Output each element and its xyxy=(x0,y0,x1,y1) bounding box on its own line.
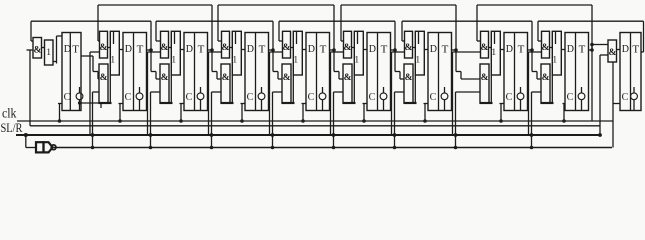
svg-text:&: & xyxy=(542,73,550,83)
junction clk at FF3 xyxy=(179,119,183,123)
wire Q-bar stem of FF3 xyxy=(200,100,202,111)
svg-text:clk: clk xyxy=(2,106,17,121)
junction clk at FF9 xyxy=(562,119,566,123)
wire clock riser to FF8 C input xyxy=(500,104,502,122)
junction clk at FF5 xyxy=(301,119,305,123)
wire output stem above bubble of FF10 xyxy=(633,87,635,93)
wire clock riser to FF1 C input xyxy=(59,104,61,122)
or gate V5 internal divider xyxy=(296,31,298,44)
junction Q9 node xyxy=(590,48,594,52)
svg-text:1: 1 xyxy=(171,56,176,66)
wire V7 out to FF7 D input xyxy=(424,49,428,51)
and gate U6B lower box bottom bar xyxy=(343,102,356,104)
and gate U4A upper (&) xyxy=(222,31,230,58)
svg-text:&: & xyxy=(541,43,549,53)
wire output stem above bubble of FF7 xyxy=(444,87,446,93)
junction bottom rail at cell 5 riser xyxy=(271,146,275,150)
wire inverted SL/R riser to U5B pin xyxy=(272,92,274,148)
junction bottom rail at cell 9 riser xyxy=(530,146,534,150)
or gate V5 (1) xyxy=(293,31,302,75)
svg-text:D: D xyxy=(369,44,376,55)
wire Q feedback into U5A pin xyxy=(279,40,282,42)
or gate V7 lower extension xyxy=(414,75,416,103)
wire output stem above bubble of FF8 xyxy=(520,87,522,93)
junction bottom rail at cell 7 riser xyxy=(393,146,397,150)
flip-flop FF9 divider xyxy=(575,33,577,111)
wire SL/R riser to U9A pin xyxy=(528,52,530,135)
junction Q6 node xyxy=(393,48,397,52)
wire feedback Q5 to cell 4 top span xyxy=(218,4,334,6)
wire SL/R feed to gate U1 input xyxy=(27,49,34,51)
svg-text:1: 1 xyxy=(232,56,237,66)
wire Q-bar stem of FF1 xyxy=(79,100,81,111)
svg-text:T: T xyxy=(381,44,388,56)
svg-text:SL/R: SL/R xyxy=(1,121,24,135)
wire SL/R upper distribution rail xyxy=(30,125,600,127)
wire clock riser to FF6 C input xyxy=(363,104,365,122)
wire riser to gate U3A input xyxy=(155,21,157,41)
wire Q feedback into U9A pin xyxy=(538,40,541,42)
svg-text:1: 1 xyxy=(110,56,115,66)
junction clk at FF2 xyxy=(118,119,122,123)
and gate U3A upper (&) xyxy=(161,31,169,58)
svg-text:&: & xyxy=(33,46,41,56)
flip-flop FF4 divider xyxy=(255,33,257,111)
junction SL/R at U10 riser xyxy=(598,133,602,137)
or gate V9 (1) xyxy=(552,31,561,75)
or gate V9 internal divider xyxy=(555,31,557,44)
or gate V7 (1) xyxy=(415,31,424,75)
junction bottom rail at cell 8 riser xyxy=(454,146,458,150)
and gate U5B lower (&) xyxy=(282,64,291,103)
wire Q2 feedback into U1 pin xyxy=(31,40,33,42)
and gate U9B lower box bottom bar xyxy=(541,102,554,104)
wire Q-bar stem of FF10 xyxy=(633,100,635,111)
junction Q9 node xyxy=(590,43,594,47)
wire SL/R riser to U2A pin xyxy=(89,52,91,135)
wire U1 out to V1 xyxy=(42,47,45,49)
wire clock riser to FF7 C input xyxy=(424,104,426,122)
wire feedback Q8 to cell 7 top span xyxy=(402,20,532,22)
wire Q9 output stub xyxy=(589,49,593,51)
svg-text:T: T xyxy=(259,44,266,56)
svg-text:1: 1 xyxy=(46,48,51,58)
flip-flop FF6 body xyxy=(367,33,391,111)
svg-text:T: T xyxy=(579,44,586,56)
junction Q2 node xyxy=(149,48,153,52)
wire Q6 output stub xyxy=(391,49,396,51)
svg-text:&: & xyxy=(222,73,230,83)
wire clock riser to FF3 C input xyxy=(180,104,182,122)
svg-text:&: & xyxy=(608,48,616,58)
svg-text:C: C xyxy=(186,92,193,103)
svg-text:C: C xyxy=(506,92,513,103)
wire Q10 riser to feedback span xyxy=(643,21,645,52)
wire Q-bar stem of FF2 xyxy=(139,100,141,111)
wire output stem above bubble of FF2 xyxy=(139,87,141,93)
or gate V2 (1) xyxy=(110,31,119,75)
wire V1 out to FF1 D input xyxy=(53,61,57,63)
wire U3A out to V3 xyxy=(169,47,172,49)
wire inverted SL/R riser to U9B pin xyxy=(531,92,533,148)
wire inverted SL/R bottom rail xyxy=(54,147,613,149)
wire V8 out to FF8 D input xyxy=(500,49,504,51)
wire output stem above bubble of FF1 xyxy=(79,87,81,93)
wire riser to gate U1A input xyxy=(30,21,32,41)
wire Q6 staircase to U7B pin xyxy=(395,71,400,73)
and gate U1 (&) xyxy=(33,38,42,59)
and gate U10 (&) xyxy=(608,40,617,62)
and gate U3B lower box bottom bar xyxy=(160,102,173,104)
and gate U7B lower box bottom bar xyxy=(404,102,417,104)
wire U2A out to V2 xyxy=(108,47,111,49)
wire SL/R rail xyxy=(16,134,600,136)
svg-text:D: D xyxy=(247,44,254,55)
svg-text:C: C xyxy=(430,92,437,103)
svg-text:&: & xyxy=(343,43,351,53)
wire inverted SL/R riser to U3B pin xyxy=(150,92,152,148)
junction SL/R rail at cell 2 riser xyxy=(91,133,95,137)
and gate U7B lower (&) xyxy=(404,64,413,103)
svg-text:&: & xyxy=(161,73,169,83)
junction Q5 node xyxy=(332,48,336,52)
flip-flop FF1 divider xyxy=(69,33,71,111)
inverter G1 body xyxy=(44,142,53,152)
or gate V9 lower extension xyxy=(551,75,553,103)
svg-text:1: 1 xyxy=(293,56,298,66)
wire V9 out to FF9 D input xyxy=(561,49,565,51)
inverted output bubble of FF8 xyxy=(517,93,524,100)
wire Q2 staircase to U3B pin xyxy=(151,71,156,73)
or gate V3 lower extension xyxy=(170,75,172,103)
wire inverted SL/R riser to U6B pin xyxy=(333,92,335,148)
and gate U8B lower box bottom bar xyxy=(480,102,493,104)
wire Q-bar FF1 output xyxy=(80,102,102,104)
and gate U2B lower box bottom bar xyxy=(99,102,112,104)
or gate V1 (1) xyxy=(45,40,54,65)
junction Q-bar node of FF1 xyxy=(78,101,81,104)
junction SL/R rail at cell 7 riser xyxy=(393,133,397,137)
wire V4 out to FF4 D input xyxy=(241,49,245,51)
junction clk at FF8 xyxy=(499,119,503,123)
svg-text:D: D xyxy=(64,44,71,55)
wire feedback Q3 to cell 2 top span xyxy=(98,4,212,6)
junction SL/R rail at cell 5 riser xyxy=(271,133,275,137)
wire Q feedback into U2A pin xyxy=(98,40,99,42)
wire Q-bar stem of FF7 xyxy=(444,100,446,111)
svg-text:&: & xyxy=(283,73,291,83)
wire SL/R riser to distribution rail xyxy=(29,50,31,126)
or gate V6 (1) xyxy=(354,31,363,75)
wire Q-bar stem of FF6 xyxy=(383,100,385,111)
junction bottom rail at cell 2 riser xyxy=(91,146,95,150)
wire U4A out to V4 xyxy=(230,47,233,49)
wire feedback Q4 to cell 3 top span xyxy=(156,20,273,22)
or gate V8 internal divider xyxy=(494,31,496,44)
wire Q4 staircase to U5B pin xyxy=(273,71,278,73)
junction clk at FF7 xyxy=(423,119,427,123)
inverted output bubble of FF9 xyxy=(578,93,585,100)
and gate U4B lower box bottom bar xyxy=(221,102,234,104)
svg-text:D: D xyxy=(430,44,437,55)
wire clock riser to FF2 C input xyxy=(119,104,121,122)
svg-text:D: D xyxy=(567,44,574,55)
wire Q6 riser xyxy=(394,21,396,71)
wire riser to gate U4A input xyxy=(217,5,219,41)
wire SL/R riser to U3A pin xyxy=(147,52,149,135)
inverted output bubble of FF6 xyxy=(380,93,387,100)
wire Q10 output stub xyxy=(641,51,644,53)
wire inverted SL/R riser to U7B pin xyxy=(394,92,396,148)
inverted output bubble of FF1 xyxy=(76,93,83,100)
flip-flop FF5 body xyxy=(306,33,330,111)
or gate V8 (1) xyxy=(491,31,500,75)
svg-text:D: D xyxy=(186,44,193,55)
wire Q2 riser xyxy=(150,21,152,71)
flip-flop FF2 body xyxy=(123,33,147,111)
wire Q feedback into U7A pin xyxy=(402,40,404,42)
junction Q3 node xyxy=(210,48,214,52)
junction SL/R rail at cell 4 riser xyxy=(210,133,214,137)
flip-flop FF2 divider xyxy=(133,33,135,111)
or gate V5 lower extension xyxy=(292,75,294,103)
junction Q8 node xyxy=(530,48,534,52)
wire Q3 riser xyxy=(211,5,213,72)
wire Q feedback into U4A pin xyxy=(218,40,221,42)
wire output stem above bubble of FF6 xyxy=(383,87,385,93)
svg-text:D: D xyxy=(622,44,629,55)
svg-text:T: T xyxy=(72,44,79,56)
wire Q4 riser xyxy=(272,21,274,71)
svg-text:D: D xyxy=(308,44,315,55)
or gate V3 (1) xyxy=(171,31,180,75)
svg-text:D: D xyxy=(125,44,132,55)
wire Q4 output stub xyxy=(269,49,274,51)
svg-text:T: T xyxy=(518,44,525,56)
wire riser to gate U9A input xyxy=(537,21,539,41)
wire inverted SL/R riser to U4B pin xyxy=(211,92,213,148)
flip-flop FF9 body xyxy=(565,33,589,111)
wire inverted SL/R riser to U2B pin xyxy=(92,92,94,148)
junction bottom rail at cell 6 riser xyxy=(332,146,336,150)
inverted output bubble of FF5 xyxy=(319,93,326,100)
wire U5A out to V5 xyxy=(291,47,294,49)
svg-text:&: & xyxy=(160,43,168,53)
or gate V6 lower extension xyxy=(353,75,355,103)
junction SL/R rail at cell 9 riser xyxy=(530,133,534,137)
inverter G1 bubble xyxy=(51,145,56,150)
and gate U8A upper (&) xyxy=(481,31,489,58)
svg-text:&: & xyxy=(404,43,412,53)
svg-text:D: D xyxy=(506,44,513,55)
wire U10 out to FF10 D input xyxy=(617,49,621,51)
flip-flop FF4 body xyxy=(245,33,269,111)
wire feedback Q2 to cell 1 top span xyxy=(31,20,151,22)
svg-text:C: C xyxy=(247,92,254,103)
wire riser to gate U5A input xyxy=(278,21,280,41)
svg-text:&: & xyxy=(100,73,108,83)
svg-text:&: & xyxy=(221,43,229,53)
inverter G1 input box xyxy=(36,142,44,152)
and gate U2B lower (&) xyxy=(99,64,108,103)
junction clk at FF4 xyxy=(240,119,244,123)
wire Q9 to U10 pin xyxy=(592,44,608,46)
svg-text:1: 1 xyxy=(415,56,420,66)
flip-flop FF7 body xyxy=(428,33,452,111)
wire riser bottom rail to gate U10 and FF10 C input xyxy=(612,62,614,148)
inverted output bubble of FF2 xyxy=(136,93,143,100)
wire Q8 staircase to U9B pin xyxy=(532,71,537,73)
wire output stem above bubble of FF3 xyxy=(200,87,202,93)
or gate V4 lower extension xyxy=(231,75,233,103)
wire FF10 C input stub xyxy=(613,103,620,105)
or gate V8 lower extension xyxy=(490,75,492,103)
wire Q feedback into U3A pin xyxy=(156,40,160,42)
wire U8A out to V8 xyxy=(489,47,492,49)
svg-text:C: C xyxy=(369,92,376,103)
junction bottom rail at cell 3 riser xyxy=(149,146,153,150)
wire Q-bar stem of FF9 xyxy=(581,100,583,111)
wire SL/R riser to U8A pin xyxy=(452,52,454,135)
svg-text:&: & xyxy=(480,43,488,53)
junction bottom rail at cell 4 riser xyxy=(210,146,214,150)
svg-text:1: 1 xyxy=(354,56,359,66)
junction SL/R tap xyxy=(24,133,28,137)
junction SL/R rail at cell 3 riser xyxy=(149,133,153,137)
wire Q8 output stub xyxy=(528,49,533,51)
svg-text:T: T xyxy=(632,44,639,56)
wire feedback Q6 to cell 5 top span xyxy=(279,20,395,22)
or gate V2 internal divider xyxy=(113,31,115,44)
wire Q-bar stem of FF8 xyxy=(520,100,522,111)
wire Q5 staircase to U6B pin xyxy=(334,71,339,73)
flip-flop FF6 divider xyxy=(377,33,379,111)
wire clock riser to FF9 C input xyxy=(563,104,565,122)
junction Q4 node xyxy=(271,48,275,52)
wire Q5 riser xyxy=(333,5,335,72)
wire SL/R riser to U7A pin xyxy=(391,52,393,135)
junction clk at FF6 xyxy=(362,119,366,123)
wire feedback Q9 to cell 8 top span xyxy=(477,4,592,6)
wire SL/R riser to U5A pin xyxy=(269,52,271,135)
wire Q9 riser xyxy=(591,5,593,50)
or gate V3 internal divider xyxy=(174,31,176,44)
inverted output bubble of FF3 xyxy=(197,93,204,100)
wire U6A out to V6 xyxy=(352,47,355,49)
or gate V7 internal divider xyxy=(418,31,420,44)
and gate U8B lower (&) xyxy=(480,64,489,103)
wire V3 out to FF3 D input xyxy=(180,49,184,51)
and gate U9A upper (&) xyxy=(542,31,550,58)
wire riser to gate U6A input xyxy=(340,5,342,41)
wire SL/R riser to U4A pin xyxy=(208,52,210,135)
and gate U3B lower (&) xyxy=(160,64,169,103)
svg-text:C: C xyxy=(567,92,574,103)
svg-text:&: & xyxy=(344,73,352,83)
wire output stem above bubble of FF5 xyxy=(322,87,324,93)
svg-text:C: C xyxy=(125,92,132,103)
flip-flop FF10 divider xyxy=(630,33,632,111)
wire output stem above bubble of FF9 xyxy=(581,87,583,93)
wire V5 out to FF5 D input xyxy=(302,49,306,51)
wire V6 out to FF6 D input xyxy=(363,49,367,51)
svg-text:&: & xyxy=(481,73,489,83)
wire Q7 riser xyxy=(455,5,457,72)
wire Q9 riser lower segment xyxy=(591,45,593,122)
junction SL/R rail at cell 8 riser xyxy=(454,133,458,137)
wire clock riser to FF5 C input xyxy=(302,104,304,122)
and gate U7A upper (&) xyxy=(405,31,413,58)
or gate V4 internal divider xyxy=(235,31,237,44)
wire Q3 output stub xyxy=(208,49,213,51)
wire Q-bar stem of FF4 xyxy=(261,100,263,111)
svg-text:C: C xyxy=(622,92,629,103)
wire U9A out to V9 xyxy=(550,47,553,49)
and gate U2A upper (&) xyxy=(100,31,108,58)
svg-text:T: T xyxy=(198,44,205,56)
junction SL/R rail at cell 6 riser xyxy=(332,133,336,137)
wire clock riser to FF4 C input xyxy=(241,104,243,122)
or gate V2 lower extension xyxy=(109,75,111,103)
wire Q7 staircase to U8B pin xyxy=(456,71,461,73)
svg-text:C: C xyxy=(64,92,71,103)
flip-flop FF3 divider xyxy=(194,33,196,111)
junction clk at FF1 xyxy=(58,119,62,123)
flip-flop FF10 body xyxy=(620,33,641,111)
wire Q feedback into U8A pin xyxy=(477,40,480,42)
wire V2 out to FF2 D input xyxy=(119,49,123,51)
wire SL/R to inverter input xyxy=(25,135,27,148)
wire riser to gate U7A input xyxy=(401,21,403,41)
and gate U5A upper (&) xyxy=(283,31,291,58)
flip-flop FF8 divider xyxy=(514,33,516,111)
svg-text:1: 1 xyxy=(552,56,557,66)
or gate V6 internal divider xyxy=(357,31,359,44)
svg-text:&: & xyxy=(405,73,413,83)
wire Q1 output stub xyxy=(81,55,93,57)
wire Q-bar stem of FF5 xyxy=(322,100,324,111)
svg-text:T: T xyxy=(442,44,449,56)
wire U7A out to V7 xyxy=(413,47,416,49)
inverted output bubble of FF4 xyxy=(258,93,265,100)
flip-flop FF7 divider xyxy=(438,33,440,111)
and gate U5B lower box bottom bar xyxy=(282,102,295,104)
wire clk rail xyxy=(17,120,613,122)
svg-text:C: C xyxy=(308,92,315,103)
wire riser to gate U2A input xyxy=(97,5,99,41)
or gate V4 (1) xyxy=(232,31,241,75)
wire output stem above bubble of FF4 xyxy=(261,87,263,93)
flip-flop FF8 body xyxy=(504,33,528,111)
and gate U6B lower (&) xyxy=(343,64,352,103)
svg-text:T: T xyxy=(137,44,144,56)
wire SL/R riser to U6A pin xyxy=(330,52,332,135)
wire Q feedback into U6A pin xyxy=(341,40,343,42)
svg-text:1: 1 xyxy=(491,48,496,58)
wire riser to gate U8A input xyxy=(476,5,478,41)
junction Q7 node xyxy=(454,48,458,52)
wire inverted SL/R riser to U8B pin xyxy=(455,92,457,148)
wire Q5 output stub xyxy=(330,49,335,51)
svg-text:&: & xyxy=(99,43,107,53)
wire feedback Q7 to cell 6 top span xyxy=(341,4,456,6)
flip-flop FF1 body xyxy=(62,33,81,111)
wire Q1 staircase to U2B pin xyxy=(92,56,94,72)
svg-text:T: T xyxy=(320,44,327,56)
inverted output bubble of FF10 xyxy=(631,93,638,100)
wire Q3 staircase to U4B pin xyxy=(212,71,217,73)
wire SL/R riser to U10 pin xyxy=(599,55,601,135)
